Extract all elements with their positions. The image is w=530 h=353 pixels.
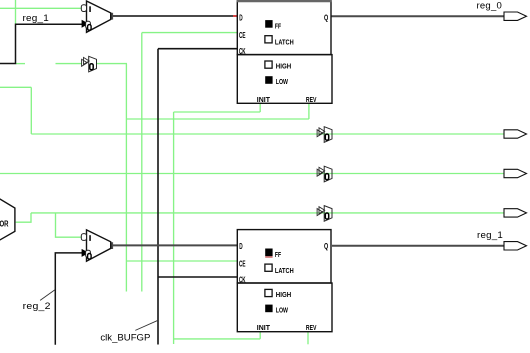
mux U2 body xyxy=(81,230,110,261)
mux U2 input-0 label 0 xyxy=(88,254,92,260)
mux U1 input-1 tab xyxy=(81,5,86,12)
mux U2 input-1 label 1 xyxy=(89,235,91,241)
svg-text:INIT: INIT xyxy=(257,95,271,104)
wire row3 net horizontal y=212.9 to port xyxy=(31,212,504,214)
wire reg_1 black: left edge to MUX U1 input-0 xyxy=(0,24,83,63)
wire CE net stub left of buffer U3 xyxy=(16,63,25,65)
mux U1 body xyxy=(81,1,110,32)
svg-text:CK: CK xyxy=(239,47,246,56)
buffer U3 near MUX1 xyxy=(82,56,97,72)
red highlight segment at FF1 D pin xyxy=(233,15,237,17)
wire clk_BUFGP spine x=158 xyxy=(157,49,159,345)
svg-text:Q: Q xyxy=(324,242,328,251)
svg-text:reg_1: reg_1 xyxy=(23,12,50,23)
svg-text:CE: CE xyxy=(239,259,246,268)
wire INIT2 stub below FF2 xyxy=(259,332,261,339)
FF1 checkbox FF filled xyxy=(265,20,272,28)
wire FF1 Q output to port reg_0 xyxy=(331,15,504,17)
svg-text:REV: REV xyxy=(306,323,317,332)
svg-text:LATCH: LATCH xyxy=(275,38,294,47)
output port row3 xyxy=(504,209,527,217)
FF1 checkbox LOW filled xyxy=(265,76,272,84)
svg-text:OR: OR xyxy=(0,220,9,229)
svg-text:Q: Q xyxy=(324,13,328,22)
wire row2 net horizontal y=173.5 to port xyxy=(0,173,504,175)
wire CE1 horizontal into FF1 CE pin xyxy=(142,32,238,34)
FF2 checkbox LOW filled xyxy=(265,305,272,313)
wire MUX U1 output to FF1 D pin xyxy=(112,15,234,17)
mux U2 input-1 tab xyxy=(81,234,86,241)
svg-text:FF: FF xyxy=(275,22,281,31)
wire MUX U2 output to FF2 D pin xyxy=(112,244,238,246)
flip-flop FF1 block xyxy=(237,1,332,104)
mux U2 output pin tick xyxy=(111,242,113,249)
mux U1 input-0 tab xyxy=(86,21,91,28)
svg-text:CK: CK xyxy=(239,275,246,284)
svg-text:D: D xyxy=(239,13,243,22)
FF1 top edge gray clipped line xyxy=(237,0,332,2)
wire branch to MUX U2 input-1 xyxy=(56,213,84,237)
buffer U6 row3 xyxy=(317,206,332,222)
wire INIT spine vertical x=173.6 xyxy=(173,112,175,344)
FF1 top box xyxy=(237,1,331,54)
output port row1 xyxy=(504,130,527,138)
svg-text:INIT: INIT xyxy=(257,323,271,332)
svg-text:LOW: LOW xyxy=(276,77,289,86)
svg-text:reg_0: reg_0 xyxy=(477,1,503,11)
wire CE spine vertical x=126.4 xyxy=(125,64,127,292)
wire clk to FF2 CK pin xyxy=(158,276,237,278)
wire OR gate G1 output xyxy=(16,213,31,222)
wire REV branch to FF1 REV pin xyxy=(126,118,309,120)
wire row1 net from left edge y=87.3 xyxy=(0,86,31,88)
FF2 checkbox HIGH empty xyxy=(265,289,272,296)
wire FF2 Q output to port reg_1 xyxy=(332,245,504,247)
wire row1 net vertical x=31.3 xyxy=(30,87,32,134)
wire MUX U1 input-1 net: green horizontal from left edge xyxy=(0,7,83,9)
wire INIT2 horizontal y=338.9 xyxy=(174,338,261,340)
svg-text:HIGH: HIGH xyxy=(276,61,291,70)
output port reg_0 xyxy=(504,12,527,20)
wire reg_2 black spine x=55.3 xyxy=(55,253,82,345)
FF2 top box xyxy=(237,230,331,283)
FF1 checkbox LATCH empty xyxy=(265,36,272,43)
wire INIT1 stub below FF1 xyxy=(259,103,261,112)
FF2 checkbox FF filled xyxy=(265,249,272,257)
wire CE branch to FF2 CE pin xyxy=(126,260,237,262)
svg-text:REV: REV xyxy=(306,95,317,104)
output port row2 xyxy=(504,169,527,177)
wire CE1 spine vertical x=141.8 xyxy=(141,33,143,292)
wire REV2 stub below FF2 xyxy=(307,332,309,345)
svg-text:LATCH: LATCH xyxy=(275,266,294,275)
svg-text:LOW: LOW xyxy=(276,306,289,315)
FF2 bottom box xyxy=(237,283,332,332)
svg-text:HIGH: HIGH xyxy=(276,290,291,299)
flip-flop FF2 block xyxy=(237,230,332,333)
wire REV1 stub up to FF1 xyxy=(308,103,310,119)
output port reg_1 xyxy=(504,242,527,250)
wire buffer U3 output to CE spine xyxy=(97,63,127,65)
buffer U5 row2 xyxy=(317,166,332,182)
svg-text:CE: CE xyxy=(239,31,246,40)
mux U1 input-0 label 0 xyxy=(88,25,92,31)
wire clk to FF1 CK pin xyxy=(158,48,237,50)
leader line for clk_BUFGP xyxy=(135,320,158,330)
OR gate G1 at left edge xyxy=(0,197,15,241)
mux U2 input-0 tab xyxy=(86,250,91,257)
FF1 checkbox HIGH empty xyxy=(265,61,272,68)
arrowhead at MUX U1 input-0 xyxy=(82,20,89,28)
buffer U4 row1 xyxy=(317,127,332,143)
FF1 bottom box xyxy=(237,55,332,104)
svg-text:reg_2: reg_2 xyxy=(23,300,51,311)
FF2 checkbox LATCH empty xyxy=(265,264,272,271)
svg-text:reg_1: reg_1 xyxy=(477,230,503,240)
svg-text:D: D xyxy=(239,242,243,251)
wire INIT net horizontal y=112 xyxy=(174,111,261,113)
mux U1 output pin tick xyxy=(111,13,113,20)
svg-text:clk_BUFGP: clk_BUFGP xyxy=(100,333,150,343)
leader line for reg_2 xyxy=(40,290,55,301)
wire CE net into buffer U3 xyxy=(56,63,83,65)
wire row1 net horizontal y=134 to port xyxy=(31,133,504,135)
arrowhead at MUX U2 input-0 xyxy=(82,249,89,257)
svg-text:FF: FF xyxy=(275,250,281,259)
wire reg_1 net: green vertical from top edge xyxy=(15,0,17,24)
mux U1 input-1 label 1 xyxy=(89,6,91,12)
FF2 checkbox FF red underline xyxy=(265,256,272,258)
